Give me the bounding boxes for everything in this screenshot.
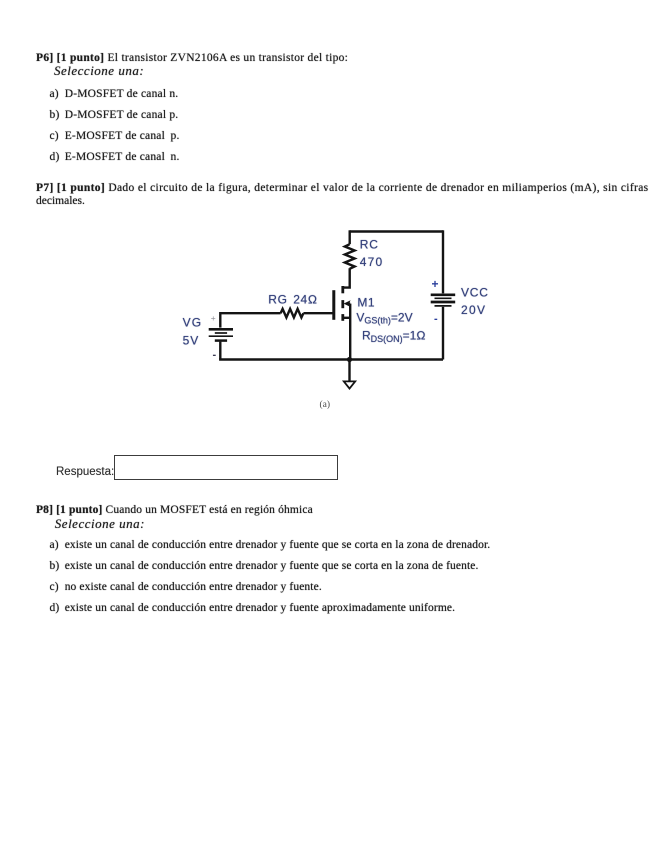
option b <box>50 110 179 122</box>
junction node dot <box>347 357 352 362</box>
P7 question line 1 <box>36 183 649 195</box>
svg-text:VCC: VCC <box>461 286 489 300</box>
ground symbol <box>344 381 355 388</box>
P7 question line 2 <box>36 196 85 208</box>
P8 option d <box>50 603 456 615</box>
resistor RC <box>345 244 355 269</box>
battery VG plate 3 long <box>209 335 233 337</box>
battery VCC plate 2 short <box>435 297 452 299</box>
svg-text:-: - <box>434 313 438 325</box>
P8 option c <box>50 582 322 594</box>
transistor M1 channel bottom segment <box>341 314 344 321</box>
transistor M1 channel top segment <box>341 286 344 293</box>
battery VCC plate 3 long <box>431 301 456 304</box>
transistor M1 body arrow <box>344 300 351 307</box>
option a <box>50 89 179 101</box>
P6 question line <box>36 53 348 65</box>
transistor M1 channel middle segment <box>341 300 344 308</box>
wire source down <box>349 304 351 360</box>
svg-text:M1: M1 <box>357 296 375 310</box>
svg-text:-: - <box>213 349 217 361</box>
option c <box>50 131 180 143</box>
wire VG top lead <box>219 312 221 328</box>
svg-text:VG: VG <box>183 315 203 329</box>
svg-text:470: 470 <box>360 255 384 269</box>
wire top rail <box>350 230 443 232</box>
P8 seleccione <box>55 518 145 530</box>
figure caption (a) <box>320 400 331 412</box>
P8 question line <box>36 505 313 517</box>
P8 option b <box>50 561 479 573</box>
battery VG plate 1 long <box>209 328 233 331</box>
svg-text:VGS(th)=2V: VGS(th)=2V <box>356 311 412 326</box>
Respuesta label <box>56 467 114 479</box>
Respuesta answer box <box>114 455 338 480</box>
transistor M1 gate plate <box>332 290 335 320</box>
svg-text:5V: 5V <box>183 334 200 348</box>
wire bottom rail <box>219 358 443 360</box>
battery VCC plate 4 short <box>435 305 452 307</box>
wire RG to gate <box>303 312 333 314</box>
svg-text:20V: 20V <box>461 303 486 317</box>
wire right column upper <box>442 230 444 293</box>
wire VG bottom lead <box>219 342 221 360</box>
svg-text:+: + <box>211 313 216 323</box>
resistor RG <box>281 309 304 318</box>
wire RC bottom lead / drain lead <box>343 268 350 287</box>
svg-text:+: + <box>432 277 439 291</box>
option d <box>50 152 180 164</box>
wire right column lower <box>442 307 444 360</box>
P6 seleccione <box>54 65 144 77</box>
battery VG plate 2 short <box>215 332 227 334</box>
wire RC top lead <box>349 230 351 244</box>
battery VG plate 4 short <box>215 339 227 342</box>
svg-text:24Ω: 24Ω <box>293 293 318 307</box>
ground stub wire <box>348 360 350 382</box>
battery VCC plate 1 long <box>431 293 456 296</box>
wire gate lead <box>220 312 280 314</box>
transistor M1 body lead <box>348 302 351 304</box>
svg-text:RDS(ON)=1Ω: RDS(ON)=1Ω <box>362 329 426 344</box>
transistor M1 source lead <box>343 317 350 319</box>
P8 option a <box>50 540 491 552</box>
svg-text:RG: RG <box>268 293 287 307</box>
svg-text:RC: RC <box>360 238 379 252</box>
